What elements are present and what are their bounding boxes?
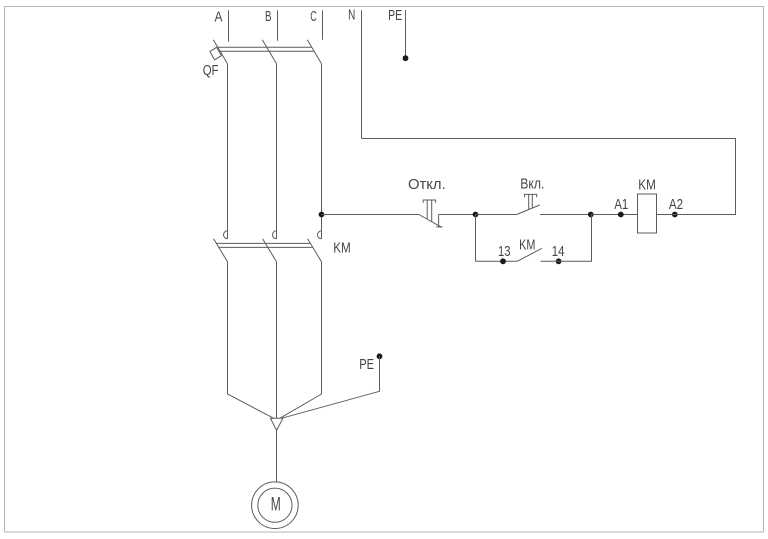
pushbutton Вкл. (NO start) (517, 176, 545, 215)
node PE (bottom) (282, 353, 383, 418)
node PE (top) (388, 7, 408, 61)
svg-text:B: B (265, 8, 272, 25)
wire star point to motor (276, 430, 278, 482)
svg-text:A2: A2 (669, 196, 683, 213)
node 13 (498, 243, 511, 264)
svg-text:A1: A1 (614, 196, 628, 213)
wire aux branch left drop (475, 215, 477, 262)
svg-text:M: M (271, 494, 281, 515)
winding star-point triangle (270, 418, 283, 430)
auxiliary contact KM 13-14 (517, 237, 542, 262)
svg-text:13: 13 (498, 243, 511, 260)
wire phase A QF to KM (227, 64, 229, 239)
motor M (252, 482, 299, 529)
svg-text:Вкл.: Вкл. (520, 176, 544, 193)
wire coil to N (right loop) (362, 139, 736, 215)
svg-text:KM: KM (519, 237, 535, 254)
circuit breaker QF (203, 40, 322, 79)
node junction after stop button (473, 212, 479, 218)
wire stop to junction (439, 214, 476, 216)
node C-phase control tap junction (319, 212, 325, 218)
wire control rung left (C tap to stop button) (322, 214, 419, 216)
svg-text:QF: QF (203, 62, 219, 79)
svg-text:KM: KM (333, 240, 351, 257)
node C (310, 8, 322, 40)
svg-text:KM: KM (638, 176, 656, 193)
wire phase A KM to star point (228, 262, 274, 418)
svg-text:A: A (215, 8, 223, 25)
node A2 (669, 196, 683, 217)
wire junction 2 to coil (592, 214, 638, 216)
wire phase B QF to KM (276, 64, 278, 239)
pushbutton Откл. (NC stop) (408, 176, 446, 228)
svg-text:Откл.: Откл. (408, 176, 446, 193)
node A (215, 8, 229, 41)
wire junction to start button (476, 214, 517, 216)
svg-text:PE: PE (359, 356, 374, 373)
node B (265, 8, 278, 41)
node N (348, 7, 361, 139)
node junction after start button (588, 212, 594, 218)
node A1 (614, 196, 628, 217)
wire phase C KM to star point (280, 262, 322, 418)
svg-text:C: C (310, 8, 317, 25)
svg-text:PE: PE (388, 7, 402, 24)
wire phase C QF to KM (321, 64, 323, 239)
svg-text:14: 14 (552, 243, 565, 260)
wire start to junction 2 (540, 214, 591, 216)
wire aux branch bottom right (541, 215, 592, 262)
coil KM (638, 176, 657, 233)
wire phase B KM to star point (276, 262, 278, 418)
wire aux branch bottom left (476, 260, 518, 262)
node 14 (552, 243, 565, 264)
contactor KM main contacts (214, 231, 351, 262)
svg-text:N: N (348, 7, 355, 24)
